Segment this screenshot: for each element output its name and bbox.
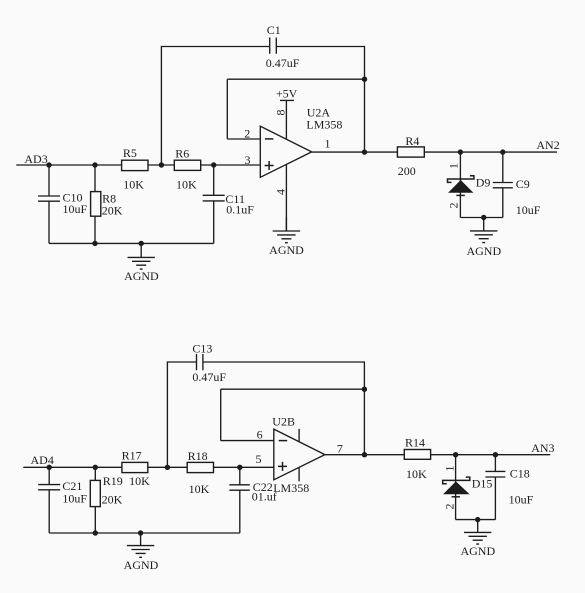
svg-text:AGND: AGND	[269, 243, 304, 257]
svg-text:20K: 20K	[102, 204, 123, 218]
svg-text:C9: C9	[516, 177, 530, 191]
svg-text:10uF: 10uF	[63, 202, 88, 216]
svg-text:1: 1	[442, 466, 456, 472]
svg-text:0.47uF: 0.47uF	[192, 370, 226, 384]
svg-text:2: 2	[446, 203, 460, 209]
svg-text:AGND: AGND	[466, 244, 501, 258]
svg-text:0.1uF: 0.1uF	[226, 203, 254, 217]
svg-text:10uF: 10uF	[62, 491, 87, 505]
svg-text:10K: 10K	[406, 467, 427, 481]
svg-text:200: 200	[398, 164, 416, 178]
svg-text:10K: 10K	[123, 177, 144, 191]
svg-text:1: 1	[325, 137, 331, 151]
svg-text:C13: C13	[192, 342, 212, 356]
svg-text:U2B: U2B	[272, 414, 295, 428]
svg-text:20K: 20K	[102, 493, 123, 507]
svg-text:7: 7	[337, 441, 343, 455]
svg-text:R6: R6	[175, 147, 189, 161]
svg-text:R5: R5	[123, 146, 137, 160]
svg-text:10K: 10K	[189, 482, 210, 496]
svg-text:R14: R14	[405, 435, 425, 449]
svg-text:10uF: 10uF	[509, 493, 534, 507]
svg-text:AN3: AN3	[531, 441, 554, 455]
svg-text:AD3: AD3	[24, 152, 47, 166]
svg-text:6: 6	[257, 427, 263, 441]
svg-text:AD4: AD4	[31, 453, 54, 467]
svg-text:AGND: AGND	[124, 269, 159, 283]
svg-text:R17: R17	[122, 448, 142, 462]
svg-text:8: 8	[273, 110, 287, 116]
svg-text:4: 4	[273, 189, 287, 195]
svg-text:10K: 10K	[129, 474, 150, 488]
svg-text:3: 3	[245, 153, 251, 167]
svg-text:10uF: 10uF	[516, 203, 541, 217]
svg-text:AGND: AGND	[124, 558, 159, 572]
svg-text:LM358: LM358	[306, 118, 342, 132]
svg-text:1: 1	[446, 163, 460, 169]
svg-text:D15: D15	[472, 476, 493, 490]
svg-text:R19: R19	[103, 474, 123, 488]
svg-text:C18: C18	[510, 466, 530, 480]
svg-text:+5V: +5V	[276, 87, 298, 101]
svg-text:10K: 10K	[176, 177, 197, 191]
svg-text:LM358: LM358	[273, 481, 309, 495]
svg-text:D9: D9	[476, 176, 491, 190]
svg-text:0.47uF: 0.47uF	[266, 56, 300, 70]
svg-text:AN2: AN2	[536, 138, 559, 152]
svg-text:C1: C1	[267, 23, 281, 37]
svg-text:AGND: AGND	[460, 544, 495, 558]
svg-text:R18: R18	[188, 449, 208, 463]
svg-text:5: 5	[256, 452, 262, 466]
svg-text:2: 2	[244, 126, 250, 140]
svg-text:R4: R4	[405, 134, 419, 148]
svg-text:2: 2	[442, 504, 456, 510]
